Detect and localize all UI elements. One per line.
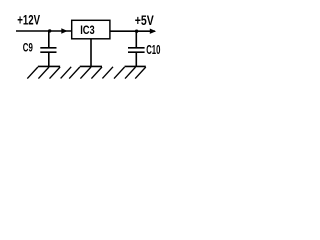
op-amp regulator IC3 box [72,20,110,39]
ground under C9 [27,66,71,78]
wire from +12V to IC3 input [16,30,72,32]
node junction on output wire [135,30,138,33]
wire IC3 ground pin down [90,39,92,66]
ground under C10 [114,66,146,78]
arrowhead into IC3 pin 1 [61,28,67,33]
svg-text:C10: C10 [146,43,160,57]
svg-text:IC3: IC3 [80,23,95,37]
svg-text:C9: C9 [23,41,33,55]
ground under IC3 [69,66,113,78]
wire junction down to C10 [135,31,137,48]
wire junction down to C9 [48,31,50,48]
capacitor C9 [40,48,56,52]
svg-text:+12V: +12V [17,13,40,28]
wire IC3 output to +5V [110,30,155,32]
node junction on input wire [48,29,51,32]
wire C10 to ground [135,52,137,66]
svg-text:+5V: +5V [135,13,155,28]
wire C9 to ground [48,52,50,66]
arrowhead +5V output [150,29,156,34]
capacitor C10 [128,48,145,52]
